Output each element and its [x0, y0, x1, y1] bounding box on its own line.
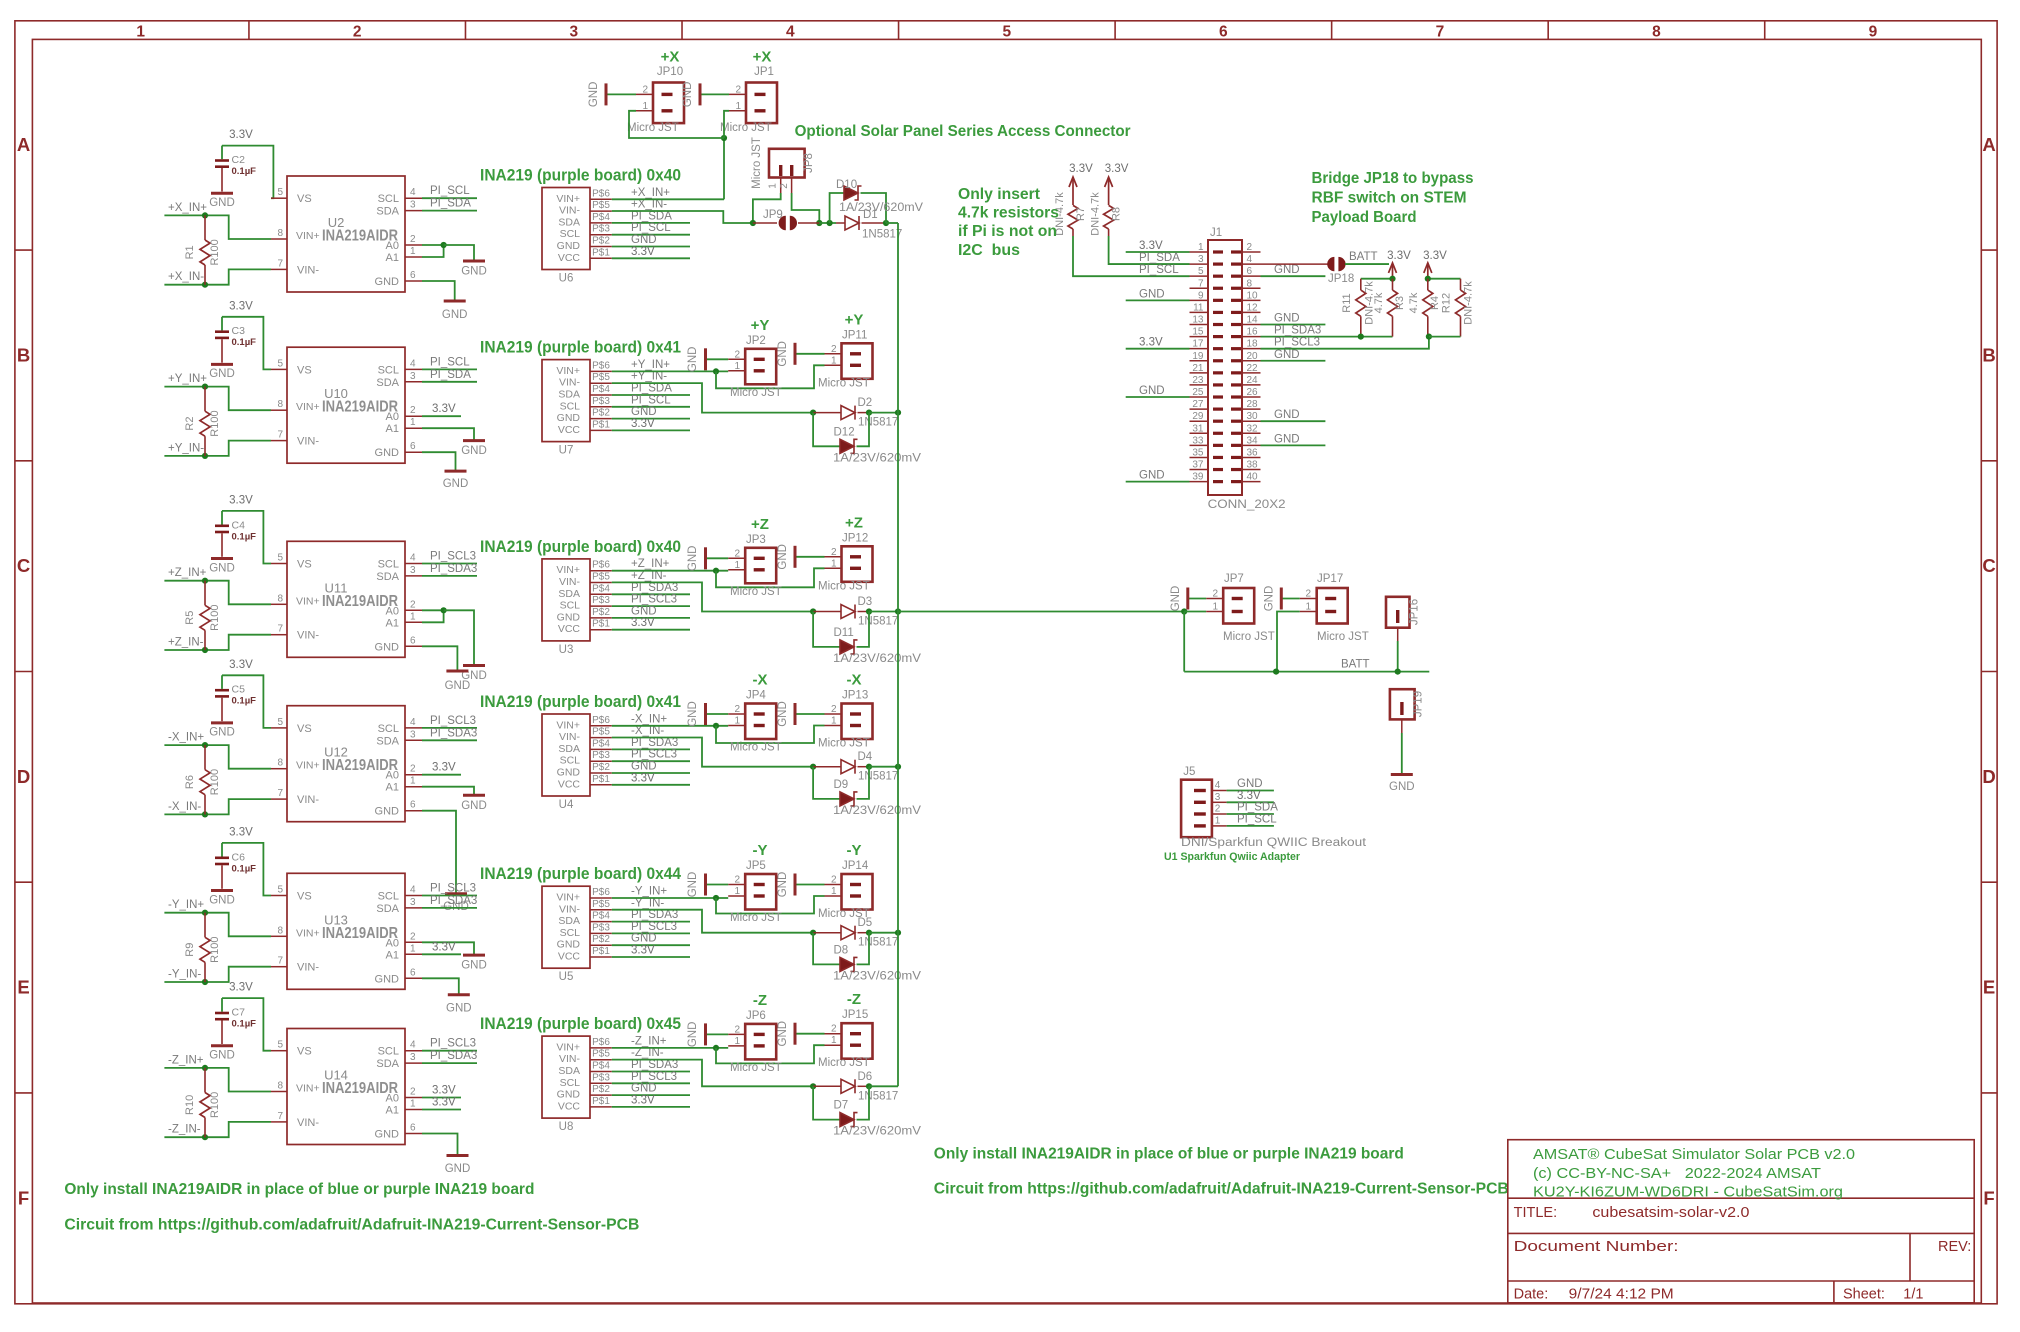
svg-text:-X_IN+: -X_IN+: [631, 713, 667, 725]
svg-text:4.7k: 4.7k: [1408, 292, 1420, 313]
op-amp U2 INA219AIDR: [287, 176, 405, 292]
pin 6 GND of U13: [405, 977, 422, 979]
pin 5 VS of U11: [271, 563, 287, 565]
svg-text:P$4: P$4: [592, 911, 610, 922]
wire -Y_IN- net to diode D5: [612, 910, 813, 933]
svg-text:GND: GND: [1139, 470, 1165, 482]
pin 5 VS of U10: [271, 368, 287, 370]
pin 6 GND of U14: [405, 1133, 422, 1135]
svg-text:PI_SCL3: PI_SCL3: [430, 715, 476, 727]
pin 1 A1 of U14: [405, 1109, 422, 1111]
net GND from U8 P$2: [612, 1094, 690, 1096]
svg-text:7: 7: [277, 1111, 283, 1122]
pin 4 SCL of U10: [405, 368, 422, 370]
pin 32 of J1: [1242, 432, 1261, 434]
svg-text:24: 24: [1247, 375, 1259, 386]
svg-text:D3: D3: [858, 596, 873, 608]
svg-text:+Z: +Z: [751, 516, 769, 533]
svg-text:SDA: SDA: [558, 915, 580, 927]
svg-text:1: 1: [831, 1035, 837, 1046]
pin 7 of J1: [1190, 287, 1209, 289]
pin P$2 of U7: [590, 418, 612, 420]
svg-text:2: 2: [735, 84, 741, 95]
svg-text:30: 30: [1247, 411, 1259, 422]
net PI_SCL from U2 pin 4: [422, 197, 477, 199]
pin 7 VIN- of U11: [271, 634, 287, 636]
svg-text:9: 9: [1869, 24, 1878, 41]
svg-text:PI_SCL3: PI_SCL3: [430, 551, 476, 563]
svg-text:-Z: -Z: [847, 991, 861, 1008]
svg-text:JP16: JP16: [1409, 599, 1421, 625]
resistor R2 R100: [204, 387, 206, 412]
wire BATT bus to JP7: [898, 611, 1184, 613]
svg-text:GND: GND: [1264, 586, 1276, 612]
pin 8 VIN+ of U12: [271, 768, 287, 770]
pin 1 A1 of U12: [405, 786, 422, 788]
ground under C2: [211, 192, 233, 195]
diode D9 bypass 1A/23V/620mV: [813, 767, 840, 799]
svg-text:1: 1: [410, 943, 416, 954]
pin 5 VS of U13: [271, 895, 287, 897]
svg-text:+Y: +Y: [845, 311, 864, 328]
svg-text:P$3: P$3: [592, 922, 610, 933]
wire +X_IN+ to pin 8: [164, 215, 271, 239]
svg-text:-X_IN-: -X_IN-: [168, 801, 201, 813]
svg-text:-X_IN-: -X_IN-: [631, 725, 664, 737]
pin 6 of J1: [1242, 275, 1261, 277]
svg-text:1: 1: [410, 417, 416, 428]
svg-text:GND: GND: [777, 544, 789, 570]
wire 3.3V rail R4/R12: [1428, 278, 1461, 280]
pin 14 of J1: [1242, 324, 1261, 326]
svg-text:GND: GND: [1237, 778, 1263, 790]
ground under C5: [211, 721, 233, 724]
wire 3.3V to U2 VS: [222, 146, 273, 199]
wire JP10 pin 1: [629, 111, 724, 138]
svg-text:SCL: SCL: [378, 723, 399, 735]
svg-text:GND: GND: [209, 562, 235, 574]
svg-text:GND: GND: [375, 641, 400, 653]
svg-text:8: 8: [1652, 24, 1661, 41]
svg-text:D8: D8: [834, 944, 849, 956]
svg-text:1A/23V/620mV: 1A/23V/620mV: [833, 653, 921, 665]
diode D12 bypass 1A/23V/620mV: [813, 413, 840, 447]
wire 3.3V to U11 VS: [222, 511, 271, 564]
pin 24 of J1: [1242, 384, 1261, 386]
svg-text:34: 34: [1247, 435, 1259, 446]
svg-text:SCL: SCL: [378, 891, 399, 903]
svg-text:D6: D6: [858, 1071, 873, 1083]
svg-text:VIN+: VIN+: [556, 365, 580, 377]
svg-text:if Pi is not on: if Pi is not on: [958, 223, 1057, 240]
svg-text:SCL: SCL: [560, 600, 581, 612]
svg-text:GND: GND: [777, 701, 789, 727]
svg-text:VIN+: VIN+: [556, 564, 580, 576]
net PI_SDA3 from U14 pin 3: [422, 1062, 477, 1064]
svg-text:0.1µF: 0.1µF: [232, 337, 257, 348]
svg-text:21: 21: [1192, 363, 1204, 374]
svg-text:VCC: VCC: [558, 951, 581, 963]
svg-text:25: 25: [1192, 387, 1204, 398]
pin 39 of J1: [1190, 481, 1209, 483]
resistor R12 DNI-4.7k: [1460, 279, 1462, 290]
svg-text:-Z_IN-: -Z_IN-: [168, 1124, 201, 1136]
pin 29 of J1: [1190, 420, 1209, 422]
svg-text:SCL: SCL: [560, 1077, 581, 1089]
net 3.3V from U13 A1: [422, 953, 461, 955]
wire JP2 pin1 to JP11 pin1: [716, 365, 825, 388]
svg-text:E: E: [1983, 977, 1995, 998]
svg-text:VIN+: VIN+: [296, 595, 320, 607]
svg-text:+Y_IN-: +Y_IN-: [168, 442, 204, 454]
svg-text:3: 3: [410, 729, 416, 740]
svg-text:1: 1: [831, 886, 837, 897]
svg-text:4: 4: [786, 24, 795, 41]
svg-text:6: 6: [410, 1123, 416, 1134]
svg-text:JP8: JP8: [803, 153, 815, 173]
svg-text:P$6: P$6: [592, 188, 610, 199]
svg-text:PI_SDA: PI_SDA: [1139, 252, 1180, 264]
pin 36 of J1: [1242, 456, 1261, 458]
pin 17 of J1: [1190, 348, 1209, 350]
wire -Y_IN+ to pin 8: [164, 913, 271, 937]
svg-text:PI_SCL3: PI_SCL3: [1274, 337, 1320, 349]
svg-text:3.3V: 3.3V: [631, 617, 655, 629]
pin 34 of J1: [1242, 444, 1261, 446]
pin 3 of J5: [1212, 801, 1227, 803]
svg-text:R1: R1: [184, 245, 196, 259]
svg-text:39: 39: [1192, 472, 1204, 483]
svg-text:7: 7: [277, 430, 283, 441]
connector JP13 Micro JST: [842, 704, 873, 740]
net 3.3V from U10 A0: [422, 415, 461, 417]
pin 2 A0 of U2: [405, 244, 422, 246]
connector JP7 Micro JST: [1223, 588, 1254, 624]
svg-text:P$5: P$5: [592, 1049, 610, 1060]
net PI_SCL3 from U13 pin 4: [422, 895, 477, 897]
svg-text:PI_SDA3: PI_SDA3: [1274, 325, 1321, 337]
svg-text:8: 8: [277, 228, 283, 239]
pin 33 of J1: [1190, 444, 1209, 446]
svg-text:4: 4: [410, 1040, 416, 1051]
svg-text:P$1: P$1: [592, 619, 610, 630]
capacitor C5 0.1uF: [221, 675, 223, 689]
svg-text:8: 8: [277, 758, 283, 769]
pin 25 of J1: [1190, 396, 1209, 398]
svg-text:D11: D11: [834, 627, 854, 639]
pin P$4 of U4: [590, 748, 612, 750]
svg-text:2: 2: [831, 344, 837, 355]
wire JP9 to D1: [819, 222, 836, 224]
pin 1 A1 of U11: [405, 621, 422, 623]
svg-text:SCL: SCL: [378, 559, 399, 571]
svg-text:Date:: Date:: [1514, 1287, 1549, 1303]
svg-text:SCL: SCL: [560, 400, 581, 412]
svg-text:SDA: SDA: [558, 389, 580, 401]
svg-text:3.3V: 3.3V: [432, 1085, 456, 1097]
svg-text:A1: A1: [386, 782, 399, 794]
svg-text:1/1: 1/1: [1903, 1287, 1923, 1303]
svg-text:5: 5: [1198, 266, 1204, 277]
svg-text:1: 1: [768, 183, 779, 189]
pin P$5 of U7: [590, 382, 612, 384]
pin 16 of J1: [1242, 336, 1261, 338]
svg-text:6: 6: [410, 441, 416, 452]
svg-text:GND: GND: [687, 701, 699, 727]
pin 8 VIN+ of U11: [271, 603, 287, 605]
svg-text:PI_SDA3: PI_SDA3: [430, 727, 477, 739]
module U4 INA219 purple board: [542, 714, 590, 796]
net PI_SDA to J1 pin 3: [1109, 236, 1190, 264]
svg-text:JP9: JP9: [763, 209, 783, 221]
svg-text:R100: R100: [209, 769, 221, 795]
svg-text:SDA: SDA: [376, 1058, 399, 1070]
svg-text:+Y: +Y: [751, 317, 770, 334]
pin 27 of J1: [1190, 408, 1209, 410]
svg-text:0.1µF: 0.1µF: [232, 531, 257, 542]
svg-text:5: 5: [277, 1040, 283, 1051]
svg-text:D: D: [17, 766, 30, 787]
svg-text:JP12: JP12: [842, 532, 868, 544]
pin 3 SDA of U14: [405, 1062, 422, 1064]
svg-text:3.3V: 3.3V: [229, 826, 253, 838]
pin P$6 of U4: [590, 725, 612, 727]
svg-text:3: 3: [569, 24, 578, 41]
svg-text:31: 31: [1192, 423, 1204, 434]
svg-text:GND: GND: [209, 1050, 235, 1062]
svg-text:1N5817: 1N5817: [858, 1090, 898, 1102]
pin P$2 of U8: [590, 1094, 612, 1096]
wire -Z_IN+ net to JP6 pin 1: [612, 1047, 728, 1049]
pin P$6 of U5: [590, 897, 612, 899]
svg-text:2: 2: [1247, 242, 1253, 253]
wire 3.3V to U10 VS: [222, 317, 271, 370]
svg-text:A: A: [17, 134, 30, 155]
wire -Z_IN- net to diode D6: [612, 1060, 813, 1087]
ground at JP12 pin 2: [795, 556, 825, 558]
pin 20 of J1: [1242, 360, 1261, 362]
svg-text:2: 2: [410, 1087, 416, 1098]
svg-text:VIN+: VIN+: [296, 230, 320, 242]
svg-text:P$2: P$2: [592, 607, 610, 618]
svg-text:-X: -X: [847, 672, 862, 689]
svg-text:3: 3: [410, 371, 416, 382]
svg-text:+X: +X: [753, 49, 772, 66]
resistor R8 DNI-4.7k: [1104, 205, 1114, 229]
wire pin 6 of U12 to GND: [422, 811, 456, 894]
ground at JP13 pin 2: [795, 713, 825, 715]
svg-text:VS: VS: [297, 891, 312, 903]
pin 26 of J1: [1242, 396, 1261, 398]
connector JP10 Micro JST: [653, 83, 684, 124]
connector JP4 Micro JST: [745, 704, 776, 740]
svg-text:15: 15: [1192, 327, 1204, 338]
svg-text:PI_SCL: PI_SCL: [1139, 264, 1179, 276]
svg-text:1A/23V/620mV: 1A/23V/620mV: [833, 1126, 921, 1138]
svg-text:SCL: SCL: [378, 1046, 399, 1058]
svg-text:GND: GND: [557, 611, 581, 623]
svg-text:JP6: JP6: [746, 1010, 766, 1022]
svg-text:VIN-: VIN-: [297, 264, 319, 276]
svg-text:R11: R11: [1341, 293, 1353, 312]
ground at U11 pin 6: [446, 670, 468, 673]
ground under C4: [211, 557, 233, 560]
ground at JP10 pin 2: [606, 93, 636, 95]
svg-text:-X_IN+: -X_IN+: [168, 732, 204, 744]
svg-text:PI_SCL3: PI_SCL3: [631, 749, 677, 761]
net 3.3V from U6 P$1: [612, 257, 690, 259]
pin P$4 of U8: [590, 1071, 612, 1073]
svg-text:1: 1: [831, 558, 837, 569]
pin 4 SCL of U11: [405, 563, 422, 565]
svg-text:7: 7: [277, 788, 283, 799]
pin P$2 of U5: [590, 944, 612, 946]
svg-text:SDA: SDA: [376, 735, 399, 747]
svg-text:Micro JST: Micro JST: [751, 137, 763, 189]
pin P$1 of U4: [590, 784, 612, 786]
op-amp U12 INA219AIDR: [287, 706, 405, 822]
svg-text:3.3V: 3.3V: [1387, 250, 1411, 262]
svg-text:16: 16: [1247, 327, 1259, 338]
wire JP16 to BATT: [1397, 628, 1399, 641]
svg-text:VIN-: VIN-: [297, 436, 319, 448]
svg-text:Bridge JP18 to bypass: Bridge JP18 to bypass: [1312, 170, 1474, 187]
svg-text:KU2Y-KI6ZUM-WD6DRI - CubeSatSi: KU2Y-KI6ZUM-WD6DRI - CubeSatSim.org: [1533, 1184, 1843, 1201]
net 3.3V from U5 P$1: [612, 956, 690, 958]
wire -X_IN+ net to JP4 pin 1: [612, 725, 728, 727]
svg-text:Micro JST: Micro JST: [730, 912, 782, 924]
svg-text:2: 2: [1212, 589, 1218, 600]
svg-text:4: 4: [410, 358, 416, 369]
svg-text:P$4: P$4: [592, 212, 610, 223]
svg-text:+X_IN-: +X_IN-: [631, 199, 667, 211]
svg-text:PI_SDA: PI_SDA: [631, 210, 672, 222]
svg-text:3.3V: 3.3V: [432, 1097, 456, 1109]
svg-text:+Y_IN+: +Y_IN+: [168, 373, 207, 385]
svg-text:A: A: [1982, 134, 1995, 155]
svg-text:(c) CC-BY-NC-SA+ 2022-2024 A: (c) CC-BY-NC-SA+ 2022-2024 AMSAT: [1533, 1165, 1821, 1182]
svg-text:P$6: P$6: [592, 360, 610, 371]
svg-text:GND: GND: [1274, 349, 1300, 361]
svg-text:Payload Board: Payload Board: [1312, 209, 1417, 226]
svg-text:7: 7: [277, 956, 283, 967]
ground under C6: [211, 889, 233, 892]
wire A0/A1 of U11 to GND: [422, 609, 444, 611]
net PI_SDA3 from U13 pin 3: [422, 907, 477, 909]
diode D10 bypass 1A/23V/620mV: [830, 193, 844, 223]
svg-text:1: 1: [1305, 602, 1311, 613]
svg-text:GND: GND: [777, 872, 789, 898]
svg-text:PI_SCL: PI_SCL: [430, 185, 470, 197]
ground at JP11 pin 2: [795, 353, 825, 355]
ground at JP7 pin 2: [1188, 598, 1206, 600]
wire JP19 to GND: [1401, 719, 1403, 733]
capacitor C2 0.1uF: [221, 146, 223, 160]
svg-text:A0: A0: [386, 605, 399, 617]
svg-text:INA219 (purple board) 0x40: INA219 (purple board) 0x40: [480, 537, 681, 556]
svg-text:VIN-: VIN-: [559, 205, 581, 217]
pin 11 of J1: [1190, 311, 1209, 313]
svg-text:GND: GND: [687, 546, 699, 572]
svg-text:2: 2: [410, 405, 416, 416]
module U3 INA219 purple board: [542, 559, 590, 641]
pin 8 VIN+ of U2: [271, 238, 287, 240]
net PI_SDA3 from U3 P$4: [612, 593, 690, 595]
wire +Z_IN- to pin 7: [164, 635, 271, 650]
resistor R10 R100: [204, 1068, 206, 1093]
svg-text:6: 6: [410, 967, 416, 978]
wire JP4 pin1 to JP13 pin1: [716, 726, 825, 744]
pin P$4 of U6: [590, 222, 612, 224]
svg-text:SDA: SDA: [558, 1065, 580, 1077]
svg-text:6: 6: [410, 270, 416, 281]
net +X_IN+ from U6 P$6: [612, 198, 724, 200]
pin 2 A0 of U13: [405, 941, 422, 943]
svg-text:SCL: SCL: [378, 193, 399, 205]
svg-text:GND: GND: [631, 761, 657, 773]
pin 18 of J1: [1242, 348, 1261, 350]
wire -X_IN+ to pin 8: [164, 745, 271, 769]
svg-text:-Z_IN+: -Z_IN+: [631, 1035, 667, 1047]
svg-text:1: 1: [1215, 815, 1221, 826]
op-amp U11 INA219AIDR: [287, 541, 405, 657]
pin P$3 of U3: [590, 605, 612, 607]
wire -X_IN- to pin 7: [164, 799, 271, 814]
svg-text:P$2: P$2: [592, 1084, 610, 1095]
svg-text:JP1: JP1: [754, 66, 774, 78]
svg-text:VIN-: VIN-: [559, 576, 581, 588]
svg-text:VIN-: VIN-: [559, 903, 581, 915]
svg-text:P$1: P$1: [592, 1096, 610, 1107]
svg-text:2: 2: [734, 704, 740, 715]
svg-text:10: 10: [1247, 290, 1259, 301]
svg-text:+Y_IN-: +Y_IN-: [631, 371, 667, 383]
net PI_SCL3 from U5 P$3: [612, 932, 690, 934]
svg-text:VIN-: VIN-: [559, 377, 581, 389]
net GND from J1 pin 6: [1261, 275, 1326, 277]
svg-text:GND: GND: [461, 960, 487, 972]
svg-text:29: 29: [1192, 411, 1204, 422]
ground at JP2 pin 2: [706, 358, 729, 360]
svg-text:C4: C4: [232, 519, 246, 531]
svg-text:+X_IN+: +X_IN+: [631, 187, 670, 199]
pin 35 of J1: [1190, 456, 1209, 458]
svg-text:U5: U5: [559, 971, 574, 983]
svg-text:GND: GND: [1274, 409, 1300, 421]
svg-text:8: 8: [277, 925, 283, 936]
pin 2 A0 of U14: [405, 1097, 422, 1099]
svg-text:U3: U3: [559, 644, 574, 656]
pin 4 SCL of U12: [405, 727, 422, 729]
svg-text:R7: R7: [1075, 207, 1087, 221]
wire BATT rail: [1184, 671, 1429, 673]
wire D5 to BATT bus: [869, 932, 898, 934]
svg-text:3.3V: 3.3V: [1069, 163, 1093, 175]
svg-text:VS: VS: [297, 1046, 312, 1058]
net PI_SCL3 from J1 pin 18: [1261, 337, 1429, 349]
net GND to J1 pin 39: [1126, 481, 1190, 483]
svg-text:VCC: VCC: [558, 778, 581, 790]
svg-text:VIN-: VIN-: [297, 962, 319, 974]
svg-text:1A/23V/620mV: 1A/23V/620mV: [833, 970, 921, 982]
svg-text:SCL: SCL: [560, 228, 581, 240]
net PI_SDA from U2 pin 3: [422, 210, 477, 212]
svg-text:INA219 (purple board) 0x41: INA219 (purple board) 0x41: [480, 692, 681, 711]
wire +X_IN- to pin 7: [164, 269, 271, 284]
net PI_SCL from U6 P$3: [612, 234, 690, 236]
svg-text:C: C: [17, 555, 30, 576]
svg-text:3: 3: [1198, 254, 1204, 265]
